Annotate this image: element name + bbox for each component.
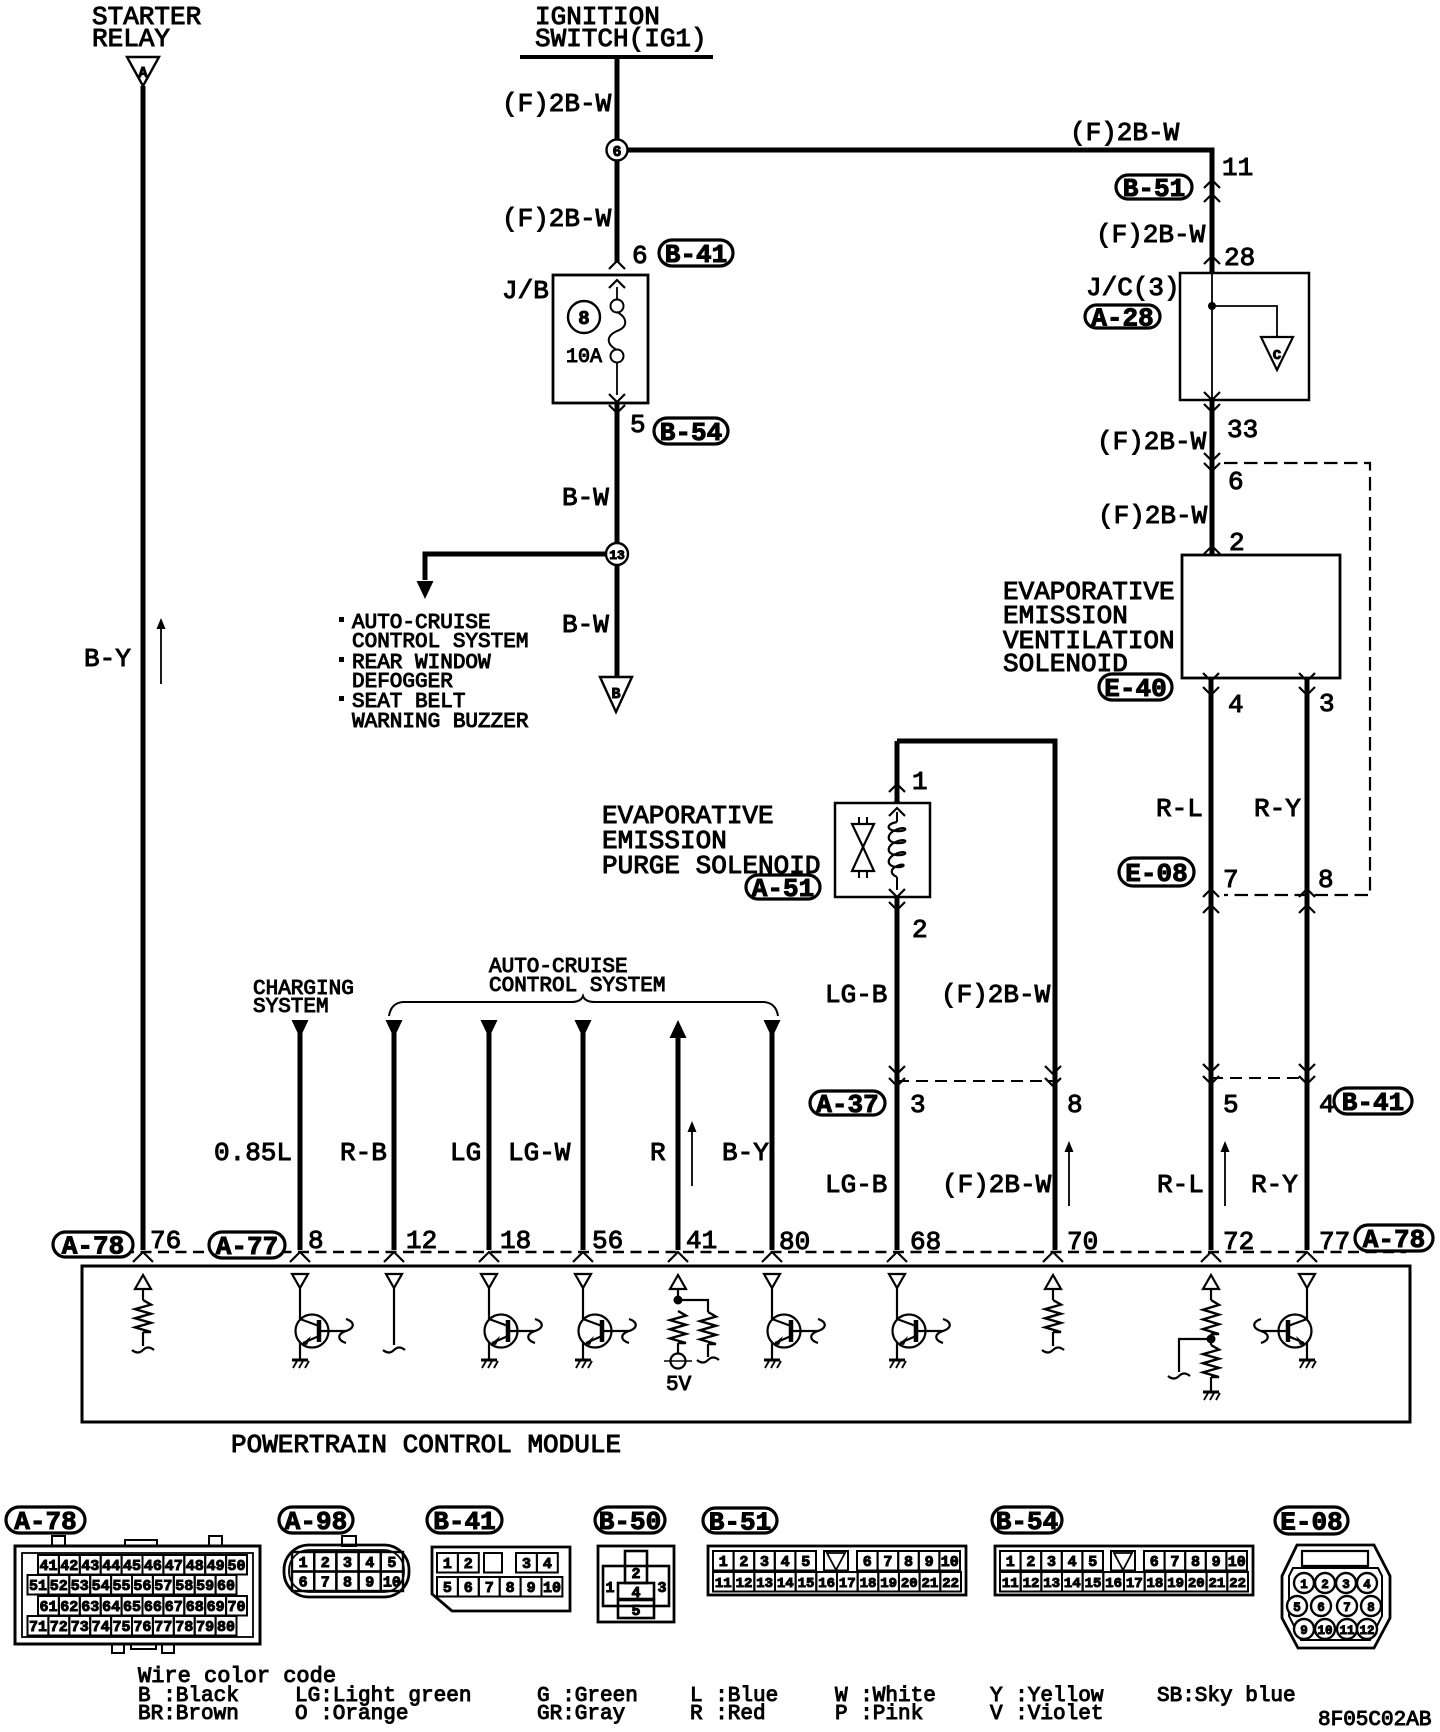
connector A-78 ref [6, 1507, 85, 1533]
svg-text:A-28: A-28 [1091, 304, 1153, 334]
svg-text:B-54: B-54 [660, 418, 722, 448]
svg-text:GR:Gray: GR:Gray [537, 1703, 625, 1726]
connector B-41 blank key [484, 1553, 502, 1573]
svg-text:3: 3 [657, 1580, 666, 1597]
wire B-W J/B to node 13 [615, 404, 620, 543]
svg-text:A: A [138, 65, 147, 82]
dashed harness boundary [1224, 463, 1370, 895]
svg-text:B-54: B-54 [996, 1507, 1058, 1537]
svg-text:5: 5 [801, 1554, 810, 1571]
svg-text:5: 5 [387, 1555, 396, 1572]
connector B-41 ref [427, 1507, 502, 1533]
svg-text:1: 1 [1300, 1578, 1308, 1592]
svg-text:77: 77 [154, 1619, 172, 1636]
wire end chevron at x=583 [573, 1252, 593, 1262]
connector A-98 pins 6-10 [292, 1572, 314, 1592]
crossing out of J/C(3) [1204, 392, 1220, 400]
connector B-51 housing [708, 1546, 966, 1595]
svg-text:11: 11 [715, 1576, 732, 1592]
crossing E-08 wire R-L [1203, 889, 1219, 897]
svg-text:18: 18 [500, 1226, 531, 1256]
svg-text:(F)2B-W: (F)2B-W [941, 980, 1051, 1010]
wire inside J/C(3) [1211, 273, 1213, 400]
junction connector J/C(3) box [1180, 273, 1309, 400]
svg-text:19: 19 [880, 1576, 897, 1592]
wire R-L vent pin4 to PCM 72 [1209, 678, 1214, 1250]
connector B-41 housing [432, 1547, 570, 1611]
fuse 8 circle [568, 301, 600, 333]
svg-text:5: 5 [1223, 1090, 1239, 1120]
svg-text:5: 5 [631, 1603, 640, 1620]
svg-text:48: 48 [186, 1558, 204, 1575]
svg-text:A-37: A-37 [816, 1090, 878, 1120]
connector B-50 mid frame [603, 1566, 669, 1606]
svg-text:17: 17 [1126, 1576, 1143, 1592]
svg-text:3: 3 [1342, 1578, 1350, 1592]
pcm pin 72 divider [1203, 1275, 1219, 1289]
svg-text:57: 57 [154, 1578, 172, 1595]
svg-text:2: 2 [739, 1554, 748, 1571]
crossing out of vent solenoid pin 3 [1299, 673, 1315, 681]
svg-text:14: 14 [1064, 1576, 1081, 1592]
svg-text:80: 80 [217, 1619, 235, 1636]
svg-text:8: 8 [1367, 1601, 1375, 1615]
svg-text:R :Red: R :Red [690, 1703, 766, 1726]
connector B-54 pins 6-10 [1144, 1551, 1165, 1571]
connector B-54 key [1111, 1551, 1135, 1571]
svg-text:B-Y: B-Y [84, 644, 131, 674]
svg-text:9: 9 [527, 1580, 536, 1597]
svg-text:6: 6 [464, 1580, 473, 1597]
svg-text:RELAY: RELAY [92, 24, 170, 54]
pcm pin 56 transistor [575, 1274, 591, 1288]
svg-text:16: 16 [1105, 1576, 1122, 1592]
svg-text:18: 18 [1146, 1576, 1163, 1592]
svg-text:6: 6 [612, 144, 621, 161]
svg-text:41: 41 [39, 1558, 57, 1575]
svg-text:22: 22 [942, 1576, 959, 1592]
svg-text:A-98: A-98 [285, 1507, 347, 1537]
wire R-Y vent pin3 to PCM 77 [1305, 678, 1310, 1250]
svg-text:55: 55 [112, 1578, 130, 1595]
svg-text:5: 5 [443, 1580, 452, 1597]
svg-text:65: 65 [123, 1599, 141, 1616]
pcm pin 8 transistor [292, 1274, 308, 1288]
svg-text:20: 20 [901, 1576, 918, 1592]
svg-text:11: 11 [1339, 1624, 1354, 1638]
connector B-54 ref [992, 1507, 1062, 1533]
direction arrow on R-L wire [1224, 1147, 1226, 1206]
svg-text:71: 71 [29, 1619, 47, 1636]
branch systems list [339, 617, 344, 622]
svg-text:76: 76 [150, 1226, 181, 1256]
svg-text:10A: 10A [566, 346, 602, 369]
svg-text:1: 1 [719, 1554, 728, 1571]
svg-text:R-L: R-L [1157, 1170, 1204, 1200]
svg-text:2: 2 [464, 1556, 473, 1573]
connector A-98 housing [284, 1545, 409, 1597]
svg-text:78: 78 [175, 1619, 193, 1636]
node 13 [606, 543, 628, 565]
svg-text:16: 16 [818, 1576, 835, 1592]
junction block J/B box [553, 275, 648, 403]
svg-text:68: 68 [186, 1599, 204, 1616]
svg-text:A-78: A-78 [14, 1507, 76, 1537]
crossing at dashed top [1204, 453, 1220, 461]
purge valve symbol [852, 824, 874, 847]
svg-text:1: 1 [299, 1555, 308, 1572]
svg-text:19: 19 [1167, 1576, 1184, 1592]
svg-text:C: C [1273, 348, 1282, 364]
svg-text:CONTROL SYSTEM: CONTROL SYSTEM [352, 631, 528, 654]
svg-text:R-Y: R-Y [1251, 1170, 1298, 1200]
svg-text:10: 10 [383, 1575, 401, 1592]
connector B-41 pins 3-4 [516, 1553, 537, 1573]
pcm pin 18 transistor [481, 1274, 497, 1288]
svg-text:8: 8 [1318, 865, 1334, 895]
svg-text:6: 6 [1317, 1601, 1325, 1615]
wire (F)2B-W from ignition switch to node 6 [615, 57, 620, 140]
svg-text:2: 2 [1321, 1578, 1329, 1592]
wire from node 6 right and down to B-51 pin 11 [627, 150, 1212, 273]
svg-text:33: 33 [1227, 415, 1258, 445]
svg-text:12: 12 [1359, 1624, 1374, 1638]
pcm pin 76 input resistor [135, 1275, 151, 1289]
wire end chevron at x=772 [762, 1252, 782, 1262]
svg-text:LG-B: LG-B [825, 1170, 887, 1200]
svg-text:2: 2 [1229, 528, 1245, 558]
svg-text:12: 12 [1023, 1576, 1040, 1592]
wire purge pin 1 [895, 741, 900, 803]
wire end chevron at x=394 [384, 1252, 404, 1262]
svg-text:60: 60 [217, 1578, 235, 1595]
svg-text:8F05C02AB: 8F05C02AB [1318, 1709, 1431, 1732]
svg-text:POWERTRAIN CONTROL MODULE: POWERTRAIN CONTROL MODULE [231, 1430, 621, 1460]
svg-text:4: 4 [365, 1555, 374, 1572]
svg-text:12: 12 [406, 1226, 437, 1256]
terminal triangle B [600, 677, 632, 712]
svg-text:21: 21 [1208, 1576, 1225, 1592]
svg-text:68: 68 [910, 1227, 941, 1257]
svg-text:1: 1 [1006, 1554, 1015, 1571]
connector ref A-78 right [1355, 1225, 1433, 1251]
svg-text:52: 52 [50, 1578, 68, 1595]
svg-text:21: 21 [921, 1576, 938, 1592]
svg-text:2: 2 [1026, 1554, 1035, 1571]
svg-text:15: 15 [1085, 1576, 1102, 1592]
svg-text:5V: 5V [666, 1374, 692, 1397]
svg-text:R: R [650, 1138, 666, 1168]
svg-text:73: 73 [71, 1619, 89, 1636]
svg-text:8: 8 [578, 308, 589, 330]
svg-text:2: 2 [912, 915, 928, 945]
crossing B-41 wire R-Y [1299, 1064, 1315, 1072]
crossing A-37 wire 2B-W [1045, 1066, 1061, 1074]
wire end chevron at x=897 [887, 1252, 907, 1262]
svg-text:6: 6 [632, 241, 648, 271]
wire B-W node 13 to ground B [615, 565, 620, 677]
svg-text:WARNING BUZZER: WARNING BUZZER [352, 711, 529, 734]
svg-text:9: 9 [1212, 1554, 1221, 1571]
purge solenoid coil [896, 812, 898, 822]
svg-text:B-51: B-51 [709, 1508, 771, 1538]
purge solenoid box [835, 803, 930, 897]
wire LG-W to PCM 56 [575, 1020, 592, 1038]
svg-text:6: 6 [1150, 1554, 1159, 1571]
crossing into purge solenoid [889, 784, 905, 792]
svg-text:R-B: R-B [340, 1138, 387, 1168]
svg-text:20: 20 [1188, 1576, 1205, 1592]
connector ref A-78 left [53, 1232, 133, 1257]
svg-text:J/C(3): J/C(3) [1086, 273, 1180, 303]
pcm pin 70 input resistor [1045, 1275, 1061, 1289]
svg-text:70: 70 [1067, 1227, 1098, 1257]
svg-text:28: 28 [1224, 243, 1255, 273]
ignition switch bus bar [520, 55, 713, 59]
dashed crossing B-41 lower [1211, 1077, 1307, 1079]
connector B-41 pins 5-10 [437, 1577, 458, 1597]
direction arrow up on B-Y wire [160, 624, 162, 684]
pcm pin 41 5V pullup [670, 1275, 686, 1289]
svg-text:1: 1 [912, 767, 928, 797]
svg-text:77: 77 [1319, 1227, 1350, 1257]
pcm pin 77 transistor [1299, 1274, 1315, 1288]
svg-text:44: 44 [102, 1558, 120, 1575]
svg-text:(F)2B-W: (F)2B-W [1096, 220, 1206, 250]
crossing out of vent solenoid pin 4 [1203, 673, 1219, 681]
svg-text:14: 14 [777, 1576, 794, 1592]
svg-text:12: 12 [736, 1576, 753, 1592]
svg-text:LG-W: LG-W [508, 1138, 571, 1168]
svg-text:15: 15 [798, 1576, 815, 1592]
svg-text:E-40: E-40 [1104, 674, 1166, 704]
svg-text:69: 69 [207, 1599, 225, 1616]
svg-text:8: 8 [904, 1554, 913, 1571]
svg-text:56: 56 [592, 1226, 623, 1256]
evaporative emission ventilation solenoid box [1182, 555, 1340, 678]
svg-text:51: 51 [29, 1578, 47, 1595]
svg-text:13: 13 [609, 548, 625, 563]
connector B-50 housing [598, 1546, 674, 1622]
svg-text:80: 80 [779, 1227, 810, 1257]
svg-text:(F)2B-W: (F)2B-W [1070, 118, 1180, 148]
connector B-51 key [824, 1551, 848, 1571]
connector B-51 ref [703, 1508, 777, 1533]
svg-text:41: 41 [686, 1226, 717, 1256]
svg-text:13: 13 [1043, 1576, 1060, 1592]
svg-text:13: 13 [756, 1576, 773, 1592]
svg-text:1: 1 [605, 1580, 614, 1597]
svg-text:4: 4 [1319, 1090, 1335, 1120]
svg-text:3: 3 [1047, 1554, 1056, 1571]
wire end chevron at x=300 [290, 1252, 310, 1262]
crossing into J/C(3) [1204, 256, 1220, 264]
wire 0.85L charging to PCM 8 [292, 1020, 309, 1038]
svg-text:LG-B: LG-B [825, 980, 887, 1010]
svg-text:7: 7 [321, 1575, 330, 1592]
pcm pin 12 line [386, 1274, 402, 1288]
crossing out of purge solenoid [889, 889, 905, 897]
connector ref B-41 inline [1334, 1088, 1412, 1114]
wire end chevron at x=489 [479, 1252, 499, 1262]
svg-text:CONTROL SYSTEM: CONTROL SYSTEM [489, 975, 665, 998]
svg-text:62: 62 [60, 1599, 78, 1616]
connector ref A-28 [1085, 305, 1160, 328]
svg-text:59: 59 [196, 1578, 214, 1595]
wire end chevron at x=1307 [1297, 1252, 1317, 1262]
svg-text:P :Pink: P :Pink [835, 1703, 923, 1726]
svg-text:5: 5 [1088, 1554, 1097, 1571]
svg-text:11: 11 [1002, 1576, 1019, 1592]
svg-text:22: 22 [1229, 1576, 1246, 1592]
powertrain control module box [82, 1266, 1410, 1422]
connector ref A-51 [746, 875, 820, 899]
crossing into vent solenoid [1204, 546, 1220, 554]
svg-text:79: 79 [196, 1619, 214, 1636]
connector B-51 pins 6-10 [857, 1551, 878, 1571]
node 6 [607, 140, 628, 161]
svg-text:76: 76 [133, 1619, 151, 1636]
wire LG to PCM 18 [481, 1020, 498, 1038]
wire R from PCM 41 [670, 1020, 687, 1038]
svg-text:4: 4 [1068, 1554, 1077, 1571]
connector ref B-54 [654, 418, 728, 444]
connector A-78 pins 71-80 [28, 1616, 49, 1636]
svg-text:A-77: A-77 [216, 1232, 278, 1262]
chevron inside J/B [609, 280, 625, 288]
crossing E-08 wire R-Y [1299, 889, 1315, 897]
svg-text:7: 7 [485, 1580, 494, 1597]
junction dot in J/C(3) [1208, 302, 1216, 310]
svg-text:A-51: A-51 [752, 874, 814, 904]
svg-text:V :Violet: V :Violet [990, 1703, 1103, 1726]
connector ref E-40 [1099, 674, 1172, 700]
connector B-50 pin 5 [618, 1600, 654, 1618]
svg-text:B-W: B-W [562, 610, 609, 640]
svg-text:9: 9 [365, 1575, 374, 1592]
wire LG-B purge pin2 to PCM 68 [895, 897, 900, 1250]
svg-text:B-51: B-51 [1123, 174, 1185, 204]
svg-text:B-41: B-41 [665, 240, 727, 270]
svg-text:8: 8 [506, 1580, 515, 1597]
connector B-54 pins 11-22 [1000, 1572, 1021, 1592]
connector E-08 housing [1282, 1545, 1390, 1648]
connector crossing B-51 [1204, 180, 1220, 188]
svg-text:6: 6 [299, 1575, 308, 1592]
svg-text:63: 63 [81, 1599, 99, 1616]
svg-text:45: 45 [123, 1558, 141, 1575]
wire branch left from node 13 [425, 554, 606, 580]
wire end chevron at x=143 [133, 1252, 153, 1262]
branch arrowhead [417, 581, 434, 599]
connector A-78 pins 61-70 [38, 1596, 59, 1616]
svg-text:75: 75 [112, 1619, 130, 1636]
svg-text:43: 43 [81, 1558, 99, 1575]
svg-text:3: 3 [522, 1556, 531, 1573]
svg-text:A-78: A-78 [1363, 1225, 1425, 1255]
svg-text:10: 10 [1317, 1624, 1332, 1638]
connector A-78 housing [15, 1546, 260, 1644]
svg-text:4: 4 [1228, 690, 1244, 720]
svg-text:70: 70 [227, 1599, 245, 1616]
svg-text:8: 8 [308, 1226, 324, 1256]
svg-text:66: 66 [144, 1599, 162, 1616]
svg-text:B-41: B-41 [1342, 1088, 1404, 1118]
svg-text:61: 61 [39, 1599, 57, 1616]
connector B-51 pins 1-5 [713, 1551, 734, 1571]
svg-text:4: 4 [1363, 1578, 1371, 1592]
svg-text:BR:Brown: BR:Brown [138, 1703, 239, 1726]
connector A-78 pins 51-60 [28, 1575, 49, 1595]
svg-text:67: 67 [165, 1599, 183, 1616]
svg-text:SWITCH(IG1): SWITCH(IG1) [535, 24, 707, 54]
svg-text:B-Y: B-Y [722, 1138, 769, 1168]
svg-text:B-41: B-41 [433, 1507, 495, 1537]
svg-text:5: 5 [1293, 1601, 1301, 1615]
svg-text:53: 53 [71, 1578, 89, 1595]
auto-cruise brace [389, 996, 778, 1016]
svg-text:(F)2B-W: (F)2B-W [942, 1170, 1052, 1200]
svg-text:SB:Sky blue: SB:Sky blue [1157, 1685, 1296, 1708]
direction arrow on 2B-W wire [1068, 1147, 1070, 1206]
svg-text:(F)2B-W: (F)2B-W [502, 204, 612, 234]
svg-text:64: 64 [102, 1599, 120, 1616]
svg-text:E-08: E-08 [1280, 1508, 1342, 1538]
svg-text:50: 50 [227, 1558, 245, 1575]
connector ref B-41 top [659, 240, 733, 266]
chevron inside purge box [889, 808, 905, 816]
svg-text:54: 54 [92, 1578, 110, 1595]
pcm pin 68 transistor [889, 1274, 905, 1288]
svg-text:2: 2 [631, 1566, 640, 1583]
svg-text:R-L: R-L [1156, 794, 1203, 824]
connector B-54 housing [995, 1546, 1253, 1595]
fuse symbol [616, 287, 618, 299]
svg-text:72: 72 [50, 1619, 68, 1636]
connector ref A-77 [209, 1232, 285, 1258]
svg-text:3: 3 [1319, 689, 1335, 719]
svg-text:B-W: B-W [562, 483, 609, 513]
branch to terminal C [1212, 306, 1277, 337]
connector E-08 pins [1294, 1573, 1314, 1593]
svg-text:7: 7 [1223, 865, 1239, 895]
svg-text:4: 4 [543, 1556, 552, 1573]
svg-text:72: 72 [1223, 1227, 1254, 1257]
connector A-98 ref [279, 1507, 353, 1533]
wire (F)2B-W purge top run [897, 741, 1055, 1250]
svg-text:LG: LG [450, 1138, 481, 1168]
svg-text:46: 46 [144, 1558, 162, 1575]
dashed crossing A-37 [897, 1080, 1053, 1082]
svg-text:J/B: J/B [502, 276, 549, 306]
svg-text:5: 5 [630, 410, 646, 440]
wire end chevron at x=1053 [1043, 1252, 1063, 1262]
connector B-50 pin 2 [625, 1551, 647, 1583]
connector B-51 pins 11-22 [713, 1572, 734, 1592]
connector B-50 ref [595, 1507, 665, 1533]
svg-text:(F)2B-W: (F)2B-W [502, 89, 612, 119]
svg-text:B-50: B-50 [599, 1507, 661, 1537]
wire R-B to PCM 12 [386, 1020, 403, 1038]
svg-text:E-08: E-08 [1125, 859, 1187, 889]
svg-text:8: 8 [343, 1575, 352, 1592]
svg-text:3: 3 [910, 1090, 926, 1120]
svg-text:B: B [611, 686, 620, 703]
svg-text:4: 4 [781, 1554, 790, 1571]
svg-text:7: 7 [883, 1554, 892, 1571]
svg-text:8: 8 [1067, 1090, 1083, 1120]
svg-text:42: 42 [60, 1558, 78, 1575]
